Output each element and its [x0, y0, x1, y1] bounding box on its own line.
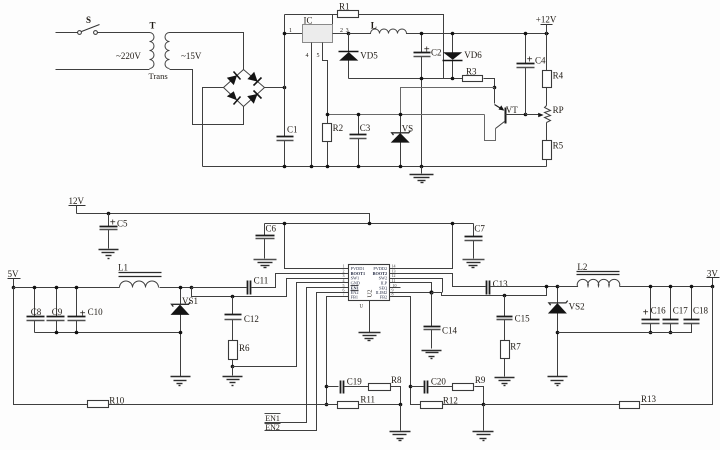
node C10 bottom junction [75, 331, 79, 335]
wire IC output to node [333, 33, 349, 35]
resistor R12 [421, 395, 458, 408]
capacitor C6 [256, 223, 277, 258]
capacitor C9 [47, 288, 65, 333]
svg-text:R11: R11 [360, 394, 375, 404]
node +12V junction [545, 32, 549, 36]
zener diode VS2 [548, 287, 585, 377]
node C9 bottom junction [55, 331, 59, 335]
resistor R13 [620, 394, 657, 409]
capacitor C2 [414, 34, 442, 167]
svg-text:C15: C15 [515, 314, 531, 324]
svg-text:+: + [643, 307, 649, 318]
ground FB2 divider [473, 405, 494, 441]
node R2 bottom junction [326, 165, 330, 169]
wire AC input top lead [56, 32, 78, 34]
svg-text:C8: C8 [31, 307, 42, 317]
svg-text:C5: C5 [117, 219, 128, 229]
node C2 bottom junction [420, 77, 424, 81]
svg-text:VD6: VD6 [464, 50, 482, 60]
inductor L [349, 20, 550, 33]
svg-text:+12V: +12V [536, 15, 557, 25]
svg-text:FB1: FB1 [351, 295, 358, 300]
capacitor C8 [27, 288, 45, 333]
node R6 bottom junction [231, 365, 235, 369]
node VS top junction [399, 113, 403, 117]
capacitor C16 [642, 287, 667, 333]
svg-text:EN1: EN1 [265, 414, 280, 423]
zener diode VS1 [171, 288, 199, 377]
wire bridge left vertex to ground rail [203, 88, 224, 167]
svg-text:C17: C17 [673, 305, 689, 315]
capacitor C18 [684, 287, 709, 333]
svg-text:4: 4 [306, 53, 309, 59]
svg-text:+: + [527, 55, 533, 66]
node VS1 bus junction [179, 331, 183, 335]
transformer T primary winding [150, 20, 156, 68]
capacitor C10 [68, 288, 104, 333]
wire C11 to BOOT1 pin [252, 274, 349, 288]
svg-text:C16: C16 [651, 305, 667, 315]
node FB1/R11 junction [325, 403, 329, 407]
node C18 top junction [690, 285, 694, 289]
resistor R4 [543, 34, 564, 106]
node R9/R12 junction [482, 403, 486, 407]
wire R1 branch to IC top [332, 15, 334, 25]
node rail-pin1 junction [283, 32, 287, 36]
capacitor C14 [424, 293, 458, 349]
resistor R9 [453, 375, 486, 390]
wire output cap bottom bus [558, 324, 692, 333]
node VS bottom junction [399, 165, 403, 169]
node C1 bottom junction [283, 165, 287, 169]
ground R7 [495, 378, 515, 386]
svg-text:R13: R13 [641, 394, 657, 404]
wire C8-C10 bottom bus [35, 332, 181, 334]
svg-text:Trans: Trans [149, 71, 169, 81]
resistor R7 [501, 341, 522, 377]
wire IC pin5 to VS node [323, 43, 328, 124]
bridge diode D-c (left-bottom edge) [227, 91, 241, 104]
capacitor C19 [341, 376, 363, 393]
svg-text:+: + [424, 44, 430, 55]
wire L1 to SW node [160, 287, 192, 289]
wire secondary bottom to bridge [170, 70, 244, 125]
svg-text:C4: C4 [535, 56, 546, 66]
wire ILP pin descent [390, 283, 432, 293]
wire C20 row [411, 386, 424, 388]
node R8/R11 ground junction [399, 403, 403, 407]
svg-text:C12: C12 [244, 314, 259, 324]
svg-text:VT: VT [506, 105, 518, 115]
node C16 top junction [649, 285, 653, 289]
wire bridge right vertex to +rail [265, 87, 285, 89]
op-amp IC (regulator) [303, 16, 333, 43]
node 12V drop junction [368, 222, 372, 226]
node C17 bottom junction [669, 331, 673, 335]
node C3 top junction [357, 113, 361, 117]
resistor R11 [338, 394, 376, 408]
wire SEQ pin stub [390, 287, 401, 289]
wire AC input bottom lead [56, 69, 150, 71]
wire BOOT2 pin to C13 [390, 274, 486, 287]
svg-text:C1: C1 [287, 125, 298, 135]
wire IC pin4 to ground rail [311, 43, 313, 167]
node C16 bottom junction [649, 331, 653, 335]
svg-text:~15V: ~15V [181, 51, 202, 61]
svg-text:L2: L2 [577, 262, 587, 272]
switch S [78, 15, 100, 35]
svg-text:C20: C20 [431, 376, 447, 386]
capacitor C3 [350, 115, 371, 167]
svg-text:C10: C10 [88, 307, 104, 317]
label EN2 (active low) [265, 423, 281, 432]
diode VD5 [339, 34, 379, 79]
svg-text:~220V: ~220V [116, 51, 141, 61]
node PVDD1 riser junction [283, 222, 287, 226]
wire emitter node to VS node [401, 88, 495, 115]
svg-text:EN2: EN2 [265, 423, 280, 432]
node riser to output junction [545, 285, 549, 289]
wire R12 node to R13 [484, 404, 620, 406]
svg-text:C18: C18 [693, 305, 709, 315]
svg-text:R7: R7 [510, 342, 521, 352]
wire VS node line [328, 114, 485, 116]
wire L2 to 3V terminal [620, 286, 713, 288]
wire 5V rail [14, 287, 120, 289]
zener diode VS [391, 115, 414, 167]
inductor L2 [558, 262, 620, 287]
svg-text:2: 2 [340, 28, 343, 34]
node ILIM2/C14 junction [430, 291, 434, 295]
node emitter junction [493, 86, 497, 90]
svg-text:C19: C19 [347, 376, 363, 386]
wire R8 to ground node [391, 387, 401, 405]
wire R3 to VT emitter node [484, 79, 495, 88]
ground C6 [254, 260, 277, 268]
resistor R5 [543, 123, 564, 167]
wire R9 to R12 node [475, 387, 484, 405]
power 5V terminal [8, 269, 21, 288]
bridge rectifier diamond [224, 70, 265, 107]
node pin4 bottom junction [310, 165, 314, 169]
svg-text:T: T [150, 20, 156, 30]
wire R12 to junction [443, 404, 484, 406]
node C2 rail junction [420, 165, 424, 169]
svg-text:R3: R3 [466, 67, 477, 77]
wire R11 to ground node [359, 404, 401, 406]
capacitor C4 [517, 34, 547, 115]
transistor VT [495, 88, 519, 129]
wire SW2 pin descent [390, 279, 443, 293]
node base junction [524, 113, 528, 117]
svg-text:U: U [360, 305, 364, 310]
svg-text:R1: R1 [339, 2, 350, 12]
ground symbol (top circuit) [410, 167, 434, 183]
wire IC thermal pad to ground [369, 301, 371, 333]
svg-text:1: 1 [289, 28, 292, 34]
wire SW jog to SW1 pin [192, 279, 349, 297]
svg-text:VS1: VS1 [182, 296, 198, 306]
inductor L1 [118, 262, 162, 287]
svg-text:5V: 5V [8, 269, 20, 279]
svg-text:3V: 3V [707, 268, 719, 278]
capacitor C11 [248, 275, 269, 294]
svg-text:R5: R5 [553, 140, 564, 150]
capacitor C12 [225, 297, 259, 341]
node C5 junction [107, 212, 111, 216]
node C12 top junction [231, 295, 235, 299]
svg-text:R8: R8 [391, 375, 402, 385]
svg-text:VS: VS [402, 123, 414, 133]
wire C13 to output node [491, 286, 558, 288]
node VD6 top junction [451, 32, 455, 36]
wire SW node to C11 [192, 287, 247, 289]
wire top feedback line through R1 [285, 15, 453, 79]
node FB1/C19 junction [325, 385, 329, 389]
node FB2/C20 junction [409, 385, 413, 389]
wire C19 row [327, 386, 339, 388]
svg-text:R2: R2 [333, 123, 344, 133]
svg-text:VS2: VS2 [569, 302, 585, 312]
svg-text:C2: C2 [431, 48, 442, 58]
svg-text:L1: L1 [118, 262, 128, 272]
svg-text:+: + [110, 217, 116, 228]
wire EN1 pin run [265, 288, 349, 423]
svg-text:5: 5 [317, 53, 320, 59]
node 5V junction [12, 286, 16, 290]
node C4 top junction [524, 32, 528, 36]
wire FB2 pin descent [390, 297, 421, 405]
node 3V junction [711, 285, 715, 289]
node PVDD2 riser junction [451, 222, 455, 226]
wire SW2 net to snubber row [432, 287, 547, 296]
svg-text:C9: C9 [52, 307, 63, 317]
diode VD6 [443, 34, 483, 79]
resistor R2 [323, 123, 344, 166]
label EN1 (active low) [265, 414, 281, 423]
node C2 top junction [420, 32, 424, 36]
wire R13 to 3V column [641, 287, 713, 405]
power 12V terminal [69, 196, 86, 214]
node VS2 bus junction [556, 331, 560, 335]
resistor R8 [369, 375, 403, 390]
wire PVDD2 pin to C7 bus [390, 224, 453, 269]
svg-text:C3: C3 [360, 123, 371, 133]
ground FB1 divider [390, 405, 411, 441]
transformer T secondary winding [165, 33, 170, 69]
node VD6 bottom junction [451, 77, 455, 81]
capacitor C7 [465, 224, 486, 259]
wire secondary top to bridge [170, 33, 244, 70]
resistor R6 [229, 341, 251, 367]
resistor R1 [338, 2, 359, 18]
potentiometer RP [526, 105, 564, 123]
svg-text:C6: C6 [266, 223, 277, 233]
node C9 top junction [55, 286, 59, 290]
svg-text:L: L [371, 20, 377, 30]
ground C7 [463, 260, 485, 268]
node C17 top junction [669, 285, 673, 289]
wire 5V sense column [14, 288, 88, 405]
bridge diode D-a (left-top edge) [227, 72, 241, 86]
ground C14 [422, 351, 442, 359]
svg-text:12V: 12V [69, 196, 85, 206]
wire 12V rail [77, 214, 370, 224]
node IC output junction [347, 32, 351, 36]
wire C20 to R9 [429, 386, 453, 388]
power +12V terminal [536, 15, 557, 34]
wire collector return to VS line [485, 115, 496, 141]
capacitor C20 [425, 376, 447, 393]
wire switch to transformer [98, 32, 150, 34]
ground IC pad [359, 333, 381, 341]
svg-text:7: 7 [343, 291, 345, 296]
wire R6 node to GND pin [233, 283, 349, 367]
node VS1 top junction [179, 286, 183, 290]
resistor R3 [463, 67, 483, 82]
wire C6-C7 upper bus [265, 223, 474, 225]
svg-text:R12: R12 [443, 395, 458, 405]
wire left +rail vertical [284, 15, 286, 167]
capacitor C13 [487, 279, 509, 294]
wire FB1 pin descent [327, 297, 349, 405]
wire EN2 pin run [265, 293, 349, 431]
svg-text:RP: RP [553, 105, 564, 115]
svg-text:C13: C13 [493, 279, 509, 289]
svg-text:U2: U2 [367, 290, 374, 298]
svg-text:R9: R9 [475, 375, 486, 385]
ground R6 [223, 367, 243, 386]
capacitor C1 [277, 125, 298, 141]
svg-text:S: S [86, 15, 91, 25]
capacitor C17 [663, 287, 689, 333]
svg-text:C14: C14 [442, 326, 458, 336]
wire ILIM2 pin run [390, 292, 432, 294]
capacitor C15 [497, 296, 531, 341]
wire VT base to RP wiper [506, 114, 526, 116]
bridge diode D-b (top-right edge) [247, 72, 261, 86]
wire IC pin1 input [285, 33, 303, 35]
wire C19 to R8 [345, 386, 369, 388]
wire VD5/C2/VD6 bottom line [349, 78, 463, 80]
node VS2 top junction [556, 285, 560, 289]
svg-text:+: + [80, 308, 86, 319]
node C3 bottom junction [357, 165, 361, 169]
svg-text:FB2: FB2 [380, 295, 387, 300]
wire R10 to FB1 node [109, 404, 338, 406]
node C15 top junction [503, 294, 507, 298]
node pin5/R2 junction [326, 113, 330, 117]
node bridge output junction [283, 86, 287, 90]
node C8 top junction [33, 286, 37, 290]
wire PVDD1 pin to C6 bus [285, 224, 349, 269]
ground VS1 [171, 377, 191, 386]
IC U2 (dual buck controller) [349, 265, 390, 301]
svg-text:C7: C7 [474, 224, 485, 234]
wire ground rail [203, 166, 547, 168]
svg-text:IC: IC [304, 16, 313, 26]
ground C5 [99, 250, 119, 259]
ground VS2 [548, 377, 568, 386]
svg-text:C11: C11 [254, 275, 269, 285]
resistor R10 [88, 396, 125, 408]
svg-text:R4: R4 [553, 70, 564, 80]
power 3V terminal [707, 268, 720, 286]
node SW rail end junction [190, 286, 194, 290]
capacitor C5 [100, 214, 129, 249]
bridge diode D-d (bottom-right edge) [247, 91, 261, 104]
node C10 top junction [75, 286, 79, 290]
svg-text:R6: R6 [239, 343, 250, 353]
svg-text:VD5: VD5 [360, 50, 378, 60]
